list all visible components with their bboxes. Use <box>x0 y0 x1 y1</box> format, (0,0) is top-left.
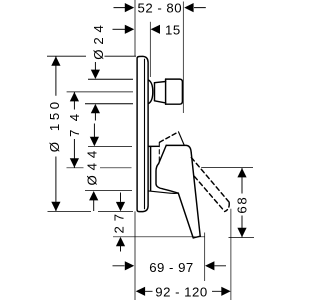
wire dim 27 tail top <box>120 193 122 202</box>
node dashed lever open top <box>191 158 229 203</box>
wire ext line 52-80 right <box>182 2 184 114</box>
node handle lever left edge <box>178 193 193 238</box>
node arrow 27 top <box>116 202 125 211</box>
node handle sleeve bottom edge <box>148 191 178 194</box>
svg-text:2 7: 2 7 <box>111 213 126 233</box>
wire dim 92-120 segments <box>145 290 222 292</box>
node arrow 52-80 right <box>184 3 193 12</box>
svg-text:Ø 2 4: Ø 2 4 <box>91 25 106 60</box>
node dashed lever raised cap <box>179 132 185 146</box>
node arrow O24 bottom <box>91 104 100 113</box>
wire dim O44 line top <box>93 124 95 138</box>
node arrow 69-97 left <box>125 261 134 270</box>
node knob bell <box>149 80 153 103</box>
labels <box>138 0 208 299</box>
svg-text:92 - 120: 92 - 120 <box>155 284 207 299</box>
wire ext 68 bottom <box>229 237 255 239</box>
wire dim O24 line top <box>94 62 96 70</box>
node arrow 15 left <box>125 25 134 34</box>
node knob neck <box>155 82 166 103</box>
node escutcheon plate <box>137 56 148 211</box>
wire ext line 15 <box>149 22 151 77</box>
wire dim 68 line <box>241 168 243 237</box>
node arrow O44 bottom <box>89 191 98 200</box>
svg-text:52 - 80: 52 - 80 <box>138 0 183 15</box>
node arrow O24 top <box>91 70 100 79</box>
node arrow 69-97 right <box>205 261 214 270</box>
wire dim 27 tail bottom <box>120 246 122 252</box>
node knob cylinder <box>166 79 183 104</box>
wire ext O24 top <box>88 78 133 80</box>
wire ext 69-97 right <box>204 233 206 282</box>
wire ext plate top left <box>47 55 136 57</box>
wire dim O24 line bottom <box>94 113 96 121</box>
svg-text:69 - 97: 69 - 97 <box>149 260 194 275</box>
node plate face edge <box>144 59 146 209</box>
node arrow 74 bottom <box>70 158 79 167</box>
wire ext O24 bottom <box>85 103 133 105</box>
node arrow 27 bottom <box>116 237 125 246</box>
node dashed lever raised top <box>160 132 179 142</box>
node arrow O150 top <box>51 56 60 65</box>
wire dim 74 line <box>73 92 75 168</box>
svg-text:68: 68 <box>235 196 250 214</box>
node handle sleeve <box>150 147 152 191</box>
node handle boss left profile <box>156 164 178 194</box>
svg-text:Ø 4 4: Ø 4 4 <box>85 150 100 185</box>
node dashed lever open cap <box>225 203 230 212</box>
wire dim O150 line <box>55 56 57 211</box>
node arrow 15 right <box>151 25 160 34</box>
wire ext O44 top <box>88 145 132 147</box>
node handle boss top <box>166 145 191 152</box>
wire wall reference line <box>134 0 136 300</box>
wire ext axis knob <box>67 91 133 93</box>
wire ext 92-120 right <box>230 209 232 300</box>
wire ext O44 bottom <box>85 190 132 192</box>
wire dim O44 tail bottom <box>93 200 95 212</box>
node dashed lever raised back <box>158 143 160 164</box>
wire ext plate bottom <box>48 210 134 212</box>
wire dim 69-97 tails <box>113 265 227 267</box>
node arrow 74 top <box>70 92 79 101</box>
node arrow 68 bottom <box>237 228 246 237</box>
node arrow O150 bottom <box>51 202 60 211</box>
node handle boss left slant <box>159 145 167 163</box>
node arrow 52-80 left <box>125 3 134 12</box>
svg-text:7 4: 7 4 <box>67 112 82 137</box>
node arrow O44 top <box>90 137 99 146</box>
wire ext 68 top <box>201 166 253 168</box>
node arrow 92-120 right <box>221 287 230 296</box>
node handle lever right edge <box>191 153 200 237</box>
svg-text:15: 15 <box>165 23 181 38</box>
node handle sleeve top edge <box>148 145 159 147</box>
wire ext 27 bottom <box>113 236 205 238</box>
node handle tip <box>193 236 200 238</box>
arrowheads <box>51 3 246 296</box>
wire dim 15 tail <box>113 28 126 30</box>
node arrow 68 top <box>237 168 246 177</box>
node arrow 92-120 left <box>136 287 145 296</box>
node dashed lever open bottom <box>194 176 224 211</box>
node knob neck joint <box>154 83 156 101</box>
svg-text:Ø 150: Ø 150 <box>47 98 62 152</box>
node knob step <box>165 79 167 104</box>
wire dim 52-80 tails <box>114 7 206 9</box>
wire ext 74 bottom <box>67 167 132 169</box>
